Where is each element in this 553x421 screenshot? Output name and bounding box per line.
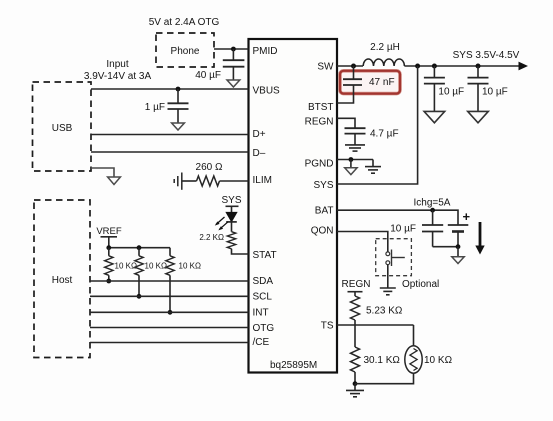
svg-text:bq25895M: bq25895M <box>270 360 317 371</box>
junction TS ground node <box>353 381 358 386</box>
block Phone (dashed) <box>156 33 214 67</box>
resistor 5.23 KOhm <box>351 296 403 320</box>
arrow SYS rail output <box>519 62 529 71</box>
svg-text:10 KΩ: 10 KΩ <box>179 262 201 271</box>
svg-text:USB: USB <box>52 123 73 134</box>
resistor 2.2 KOhm (LED) <box>199 232 235 249</box>
wire thermistor top <box>413 325 415 346</box>
svg-text:Phone: Phone <box>171 46 200 57</box>
wire PGND <box>337 159 373 161</box>
svg-text:2.2 µH: 2.2 µH <box>370 42 400 53</box>
junction SW node <box>351 64 356 69</box>
ground (earth) at PGND right <box>365 160 381 174</box>
highlight box (red) around 47 nF <box>340 71 400 94</box>
arrow charge current Ichg <box>475 222 484 255</box>
svg-text:VBUS: VBUS <box>253 86 281 97</box>
ground (open triangle) below SYS cap #2 <box>468 111 489 122</box>
wire /CE <box>90 342 249 344</box>
ground (earth) below 4.7 uF <box>345 145 365 151</box>
svg-text:2.2 KΩ: 2.2 KΩ <box>199 233 224 242</box>
wire INT <box>90 311 249 313</box>
svg-text:SW: SW <box>317 62 334 73</box>
inductor 2.2 uH <box>363 42 404 66</box>
svg-text:Optional: Optional <box>402 279 439 290</box>
svg-text:10 µF: 10 µF <box>390 224 416 235</box>
capacitor 1 uF <box>145 89 189 123</box>
wire SYS rail <box>404 65 523 67</box>
junction VBUS node <box>176 87 181 92</box>
svg-text:TS: TS <box>321 321 334 332</box>
pushbutton SW1 (optional) <box>386 250 405 267</box>
svg-text:SCL: SCL <box>253 292 273 303</box>
junction rail to C-sys1 <box>432 64 437 69</box>
svg-text:Ichg=5A: Ichg=5A <box>414 198 451 209</box>
svg-text:REGN: REGN <box>342 279 371 290</box>
ground (rotated earth) at ILIM resistor <box>174 173 182 190</box>
svg-text:/CE: /CE <box>253 337 270 348</box>
svg-text:D–: D– <box>253 148 266 159</box>
svg-text:10 KΩ: 10 KΩ <box>145 262 167 271</box>
wire D- <box>91 151 249 153</box>
thermistor 10 KOhm <box>405 346 453 373</box>
resistor 260 Ohm <box>182 162 249 186</box>
net label REGN (TS divider) <box>342 279 371 296</box>
svg-text:BAT: BAT <box>315 206 334 217</box>
op-amp/IC U1 bq25895M body <box>249 39 338 373</box>
svg-text:SYS: SYS <box>221 195 241 206</box>
wire SCL <box>90 295 249 297</box>
junction BAT node <box>430 208 435 213</box>
capacitor 10 uF (SYS rail #2) <box>468 66 508 111</box>
svg-text:PGND: PGND <box>305 159 334 170</box>
svg-text:SYS 3.5V-4.5V: SYS 3.5V-4.5V <box>453 50 520 61</box>
svg-text:STAT: STAT <box>253 250 277 261</box>
svg-text:1 µF: 1 µF <box>145 102 165 113</box>
junction SDA node <box>106 279 111 284</box>
svg-text:4.7 µF: 4.7 µF <box>370 129 399 140</box>
resistor 10 KOhm (INT pull-up) <box>166 248 201 313</box>
LED D1 <box>215 212 237 231</box>
wire VREF rail <box>109 247 170 249</box>
junction PGND node <box>349 157 354 162</box>
block Host (dashed) <box>34 200 90 358</box>
svg-text:SDA: SDA <box>253 276 274 287</box>
svg-text:10 µF: 10 µF <box>482 87 508 98</box>
svg-text:REGN: REGN <box>305 117 334 128</box>
svg-text:30.1 KΩ: 30.1 KΩ <box>364 355 401 366</box>
net label SYS (LED supply) <box>221 195 241 212</box>
svg-text:10 KΩ: 10 KΩ <box>424 355 453 366</box>
svg-text:QON: QON <box>311 226 334 237</box>
svg-text:VREF: VREF <box>96 226 122 237</box>
svg-text:Host: Host <box>52 275 73 286</box>
wire SW <box>337 65 363 67</box>
ground (open triangle) below SYS cap #1 <box>424 111 445 122</box>
junction PMID node <box>231 47 236 52</box>
svg-text:40 µF: 40 µF <box>195 70 221 81</box>
svg-text:D+: D+ <box>253 129 266 140</box>
resistor 30.1 KOhm <box>351 347 401 372</box>
svg-text:10 µF: 10 µF <box>438 87 464 98</box>
ground (open arrow) below 40 uF <box>227 80 240 87</box>
wire STAT <box>232 249 249 254</box>
wire BTST <box>337 85 354 103</box>
capacitor 4.7 uF <box>345 128 399 145</box>
svg-text:47 nF: 47 nF <box>369 77 395 88</box>
capacitor 10 uF (BAT) <box>390 210 443 247</box>
wire thermistor bottom <box>355 373 414 384</box>
block USB (dashed) <box>33 82 92 171</box>
svg-text:PMID: PMID <box>253 46 278 57</box>
ground (open arrow) battery <box>452 247 464 264</box>
junction rail to SYS pin <box>415 64 420 69</box>
svg-text:+: + <box>463 209 471 224</box>
box Optional (dashed) <box>376 239 412 276</box>
wire divider mid <box>354 320 356 347</box>
wire battery bottom <box>433 246 458 248</box>
junction rail to C-sys2 <box>476 64 481 69</box>
ground (open arrow) at PGND <box>345 160 357 175</box>
wire REGN <box>337 118 355 128</box>
resistor 10 KOhm (SDA pull-up) <box>105 248 137 281</box>
junction INT node <box>168 310 173 315</box>
junction VREF R1 <box>106 245 111 250</box>
wire BAT <box>337 210 458 225</box>
svg-text:INT: INT <box>253 308 269 319</box>
svg-text:260 Ω: 260 Ω <box>196 162 223 173</box>
wire SDA <box>90 280 249 282</box>
wire USB shield to ground <box>91 168 114 177</box>
net label Input 3.9V-14V at 3A <box>84 59 152 82</box>
capacitor 47 nF (bootstrap) <box>343 66 395 88</box>
svg-text:10 KΩ: 10 KΩ <box>115 262 137 271</box>
wire SYS pin to rail <box>337 66 418 184</box>
wire D+ <box>91 134 249 136</box>
capacitor 10 uF (SYS rail #1) <box>424 66 464 111</box>
junction SCL node <box>137 294 142 299</box>
ground (earth) below pushbutton <box>380 265 396 295</box>
wire QON <box>337 232 388 252</box>
svg-text:Input: Input <box>106 59 128 70</box>
svg-text:5.23 KΩ: 5.23 KΩ <box>366 306 403 317</box>
resistor 10 KOhm (SCL pull-up) <box>135 248 167 297</box>
svg-text:SYS: SYS <box>313 180 333 191</box>
capacitor 40 uF <box>195 49 244 81</box>
svg-text:5V at 2.4A OTG: 5V at 2.4A OTG <box>149 17 220 28</box>
wire OTG <box>90 327 249 329</box>
ground (open arrow) USB shield <box>108 177 121 185</box>
wire TS <box>337 324 414 326</box>
wire VBUS <box>91 88 249 90</box>
wire Phone to PMID <box>214 48 249 50</box>
junction battery ground node <box>456 244 461 249</box>
svg-text:3.9V-14V at 3A: 3.9V-14V at 3A <box>84 71 152 82</box>
svg-text:BTST: BTST <box>308 102 334 113</box>
ground (earth) TS <box>346 384 364 397</box>
svg-text:OTG: OTG <box>253 323 275 334</box>
net label VREF <box>96 226 122 248</box>
battery cell BT1 <box>448 209 471 247</box>
wire 30.1K to ground <box>354 372 356 384</box>
junction VREF R2 <box>137 245 142 250</box>
ground (open arrow) below 1 uF <box>172 123 185 130</box>
svg-text:ILIM: ILIM <box>253 175 272 186</box>
